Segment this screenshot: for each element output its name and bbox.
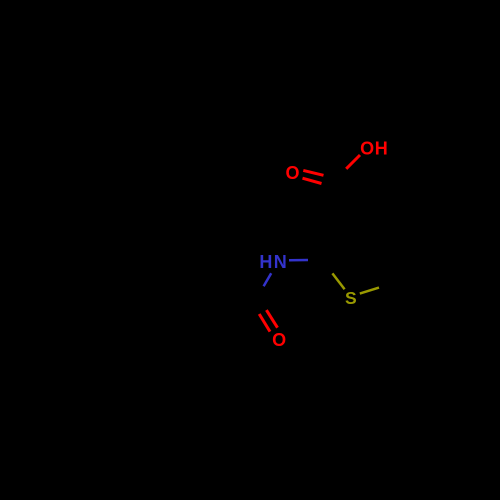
thiophene S-C5 bond (yellow half) bbox=[360, 288, 379, 294]
amide C=O double bond (red halves) bbox=[259, 314, 270, 332]
svg-text:S: S bbox=[345, 288, 357, 308]
N-C(=O) bond (blue half) bbox=[264, 273, 272, 286]
amide N-C2 bond (blue half) bbox=[289, 259, 308, 262]
svg-text:OH: OH bbox=[360, 139, 388, 159]
svg-text:O: O bbox=[272, 330, 286, 350]
carboxylic acid C=O double bond (red halves) bbox=[303, 170, 323, 175]
svg-text:HN: HN bbox=[259, 252, 288, 272]
svg-text:O: O bbox=[286, 163, 300, 183]
C-OH bond (red half) bbox=[346, 155, 360, 169]
thiophene S-C2 bond (yellow half) bbox=[332, 273, 344, 289]
